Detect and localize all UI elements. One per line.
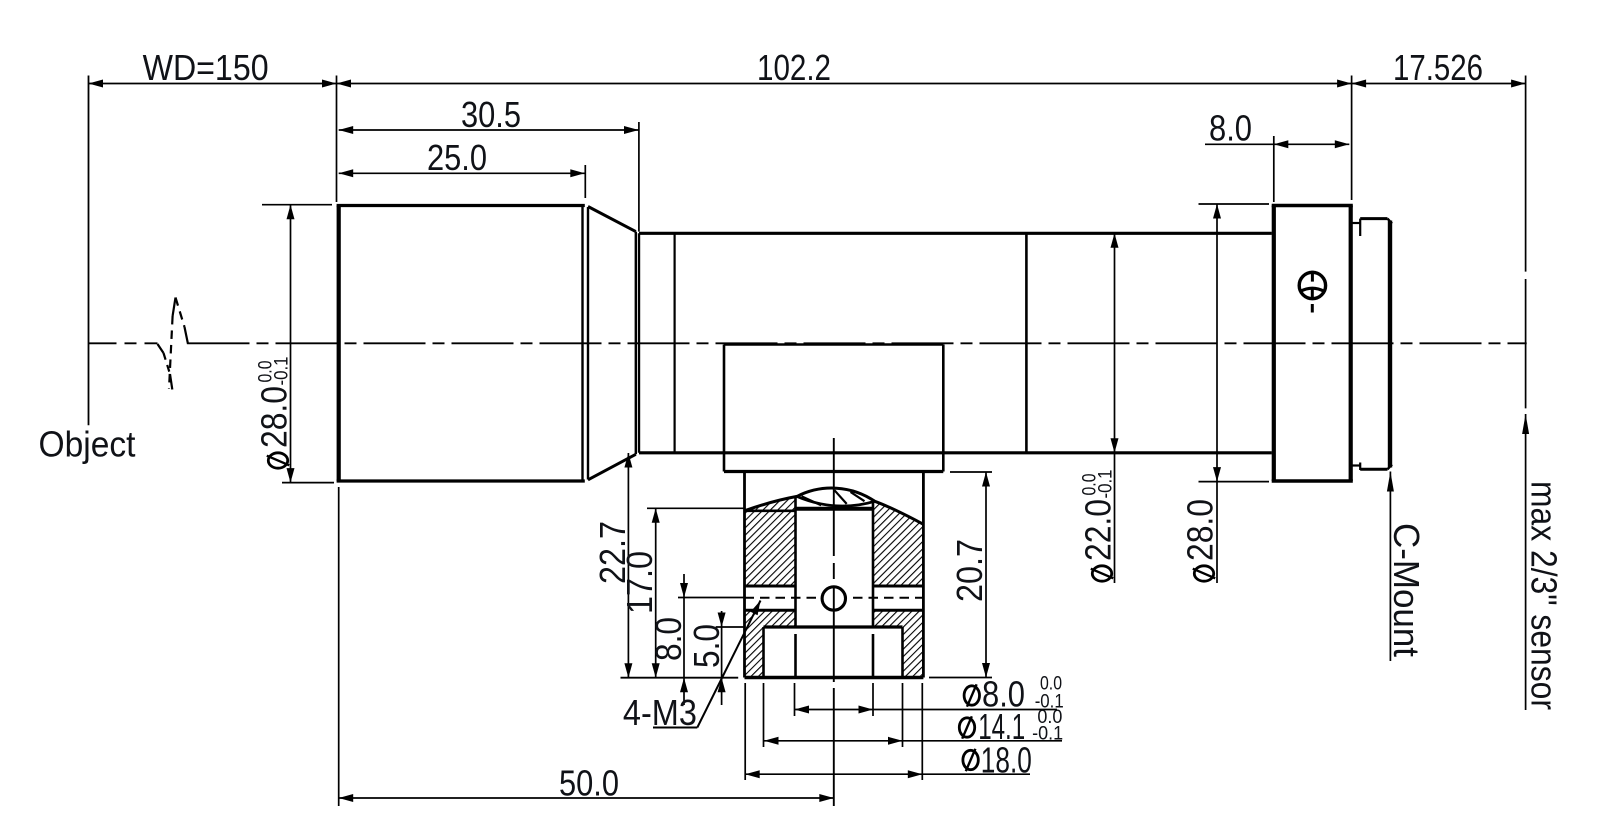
svg-text:C-Mount: C-Mount <box>1386 523 1427 657</box>
tube joint line rear <box>1025 233 1028 452</box>
4-M3 leader line <box>697 601 760 728</box>
ext line barrel dia bottom <box>282 482 334 484</box>
hatch region left lower <box>745 610 796 677</box>
svg-text:17.526: 17.526 <box>1393 47 1483 88</box>
break symbol zigzag on axis <box>158 298 189 390</box>
hatch region right upper <box>873 501 923 586</box>
ext line hole axis <box>678 597 744 599</box>
dim 50.0 line <box>339 797 834 799</box>
svg-text:30.5: 30.5 <box>461 94 521 135</box>
dim 8.0 arrows <box>1274 140 1289 148</box>
ext line recess top <box>716 626 744 628</box>
svg-text:WD=150: WD=150 <box>143 47 269 88</box>
extension line at lens front <box>336 76 338 203</box>
svg-text:17.0: 17.0 <box>619 551 660 614</box>
flange top edge <box>1272 204 1353 207</box>
dim 25.0 line <box>339 172 585 174</box>
dim dia28 barrel line <box>290 205 292 483</box>
dim 17.0 line <box>655 508 657 677</box>
dim 30.5 line <box>339 129 639 131</box>
ext line barrel front lower <box>338 487 340 806</box>
svg-text:25.0: 25.0 <box>427 137 487 178</box>
rear cyl left edge top <box>1359 219 1361 236</box>
slot bottom line left <box>745 609 796 612</box>
dim 50.0 arrows <box>339 794 354 802</box>
dim WD=150 line <box>89 83 337 85</box>
flange right edge <box>1349 206 1353 482</box>
svg-text:8.0: 8.0 <box>648 617 689 661</box>
label dia18 <box>963 750 978 769</box>
dim 20.7 line <box>985 472 987 678</box>
ext dia8 left <box>794 683 796 716</box>
object plane line <box>88 76 90 426</box>
bore right edge in recess <box>872 634 875 678</box>
ext line dome base <box>647 507 744 509</box>
dim 5.0 arrows <box>718 613 726 628</box>
4-M3 leader shelf <box>653 727 697 729</box>
slot top line left <box>745 585 796 588</box>
extension line barrel rear <box>584 165 586 198</box>
svg-text:Object: Object <box>39 423 136 464</box>
barrel bottom edge <box>337 479 585 482</box>
dim 17.526 arrows <box>1352 80 1367 88</box>
dim dia22 arrows <box>1111 233 1119 248</box>
svg-text:-0.1: -0.1 <box>1032 724 1063 745</box>
slot bottom line right <box>873 609 923 612</box>
dim dia28 flange line <box>1216 204 1218 583</box>
svg-text:-0.1: -0.1 <box>1096 470 1117 499</box>
dim 17.0 arrows <box>652 508 660 523</box>
ext dia14 left <box>763 683 765 747</box>
sensor plane line mid <box>1525 279 1527 408</box>
label dia22 <box>1078 470 1119 582</box>
shoulder line left <box>745 509 796 512</box>
sensor plane line upper <box>1525 76 1527 272</box>
ext line barrel dia top <box>262 204 332 206</box>
dim dia14 line <box>764 740 1062 742</box>
ext dia18 right <box>921 683 923 780</box>
ext line flange dia bottom <box>1199 481 1270 483</box>
bore top edge <box>796 507 872 511</box>
dim 8.0 line <box>1205 143 1349 145</box>
block right edge <box>942 345 945 472</box>
extension line at C-mount face <box>1351 76 1353 201</box>
dim dia8 arrows <box>795 706 810 714</box>
svg-text:8.0: 8.0 <box>1209 108 1252 149</box>
rear cyl left edge bottom <box>1359 463 1361 471</box>
ext dia14 right <box>902 683 904 747</box>
dim 17.526 line <box>1352 83 1526 85</box>
recess right wall <box>901 627 904 678</box>
label 5.0 <box>686 624 727 668</box>
section vertical centerline dash3 <box>833 688 835 806</box>
taper top edge <box>588 207 636 232</box>
barrel rear rim inner <box>587 207 589 480</box>
dim WD=150 arrows <box>89 80 104 88</box>
label 17.0 <box>619 551 660 614</box>
dim dia18 line <box>745 773 1030 775</box>
ext line flange dia top <box>1199 203 1270 205</box>
dim 22.7 arrows <box>624 453 632 468</box>
slot top line right <box>873 585 923 588</box>
label 8.0v <box>648 617 689 661</box>
dim 25.0 arrows <box>339 169 354 177</box>
svg-text:28.0: 28.0 <box>254 386 295 448</box>
block left edge <box>723 345 726 472</box>
svg-text:20.7: 20.7 <box>949 539 990 602</box>
bore right edge <box>872 503 875 628</box>
section vertical centerline dash2 <box>833 586 835 682</box>
ext dia8 right <box>872 683 874 716</box>
extension line taper end <box>638 122 640 232</box>
svg-text:5.0: 5.0 <box>686 624 727 668</box>
dim 8.0v arrows <box>680 583 688 598</box>
label C-Mount <box>1386 523 1427 657</box>
dim dia18 arrows <box>745 770 760 778</box>
bore left edge <box>794 498 797 628</box>
recess left wall <box>762 627 765 678</box>
block bottom edge <box>724 470 943 473</box>
section outer left edge <box>743 472 746 678</box>
label dia28 flange <box>1180 499 1221 581</box>
flange left edge <box>1272 206 1276 482</box>
dim 102.2 arrows <box>337 80 352 88</box>
block top edge <box>724 343 943 345</box>
barrel front face <box>337 206 341 482</box>
hatch region left upper <box>745 497 796 586</box>
svg-text:max 2/3" sensor: max 2/3" sensor <box>1524 481 1565 710</box>
extension line flange left <box>1273 136 1275 202</box>
ext line block bottom right <box>950 471 992 473</box>
rear cyl top edge <box>1360 217 1387 220</box>
svg-text:22.0: 22.0 <box>1078 499 1119 561</box>
tube top edge <box>639 232 1272 235</box>
hatch region right lower <box>873 610 923 677</box>
eye hatch tick 2 <box>834 490 846 504</box>
barrel top edge <box>337 204 585 207</box>
centerline main axis left of break <box>89 342 158 344</box>
eye hatch tick 1 <box>802 496 822 505</box>
taper bottom edge <box>588 454 636 480</box>
dim dia14 arrows <box>764 737 779 745</box>
dim 102.2 line <box>337 83 1352 85</box>
dim dia8 line <box>795 709 1058 711</box>
section vertical centerline dash1 <box>833 563 835 579</box>
taper end rim outer <box>635 232 637 455</box>
cross hole circle <box>822 587 845 610</box>
rear cyl bottom edge <box>1360 468 1387 471</box>
svg-text:50.0: 50.0 <box>559 763 619 804</box>
svg-text:102.2: 102.2 <box>757 47 831 88</box>
section vertical centerline solid <box>833 438 835 556</box>
dim 8.0v line <box>683 574 685 705</box>
tube joint line front <box>673 233 675 452</box>
section bottom edge <box>745 676 924 679</box>
label 20.7 <box>949 539 990 602</box>
rear cyl chamfer top <box>1388 219 1393 224</box>
barrel rear rim outer <box>581 206 583 482</box>
taper end rim inner <box>638 233 640 452</box>
centerline main axis <box>188 342 1527 344</box>
svg-text:18.0: 18.0 <box>981 740 1032 781</box>
rear cyl right edge <box>1388 221 1392 468</box>
bore left edge in recess <box>794 634 797 678</box>
dim 5.0 line <box>721 611 723 705</box>
label 22.7 <box>592 521 633 584</box>
dim dia28 flange arrows <box>1213 204 1221 219</box>
tube bottom edge <box>639 451 1272 454</box>
slot hidden dashed line <box>745 597 924 599</box>
svg-text:-0.1: -0.1 <box>272 357 293 386</box>
step cyl top edge <box>1351 222 1361 224</box>
section outer right edge <box>922 472 925 678</box>
set screw symbol <box>1299 272 1325 298</box>
svg-text:28.0: 28.0 <box>1180 499 1221 561</box>
ext line bottom reference <box>621 677 739 679</box>
dim dia28 barrel arrows <box>287 205 295 220</box>
ext dia18 left <box>744 683 746 780</box>
dome curve <box>745 488 924 524</box>
dim 20.7 arrows <box>982 472 990 487</box>
sensor leader arrow <box>1522 414 1529 434</box>
label dia8 <box>964 686 979 705</box>
recess top edge <box>764 625 903 628</box>
eye hatch tick 3 <box>851 492 865 501</box>
C-Mount leader <box>1389 472 1391 662</box>
dim 30.5 arrows <box>339 126 354 134</box>
label dia28 barrel <box>254 357 295 469</box>
rear cyl chamfer bottom <box>1388 465 1393 470</box>
ext line section bottom right <box>929 677 992 679</box>
step cyl bottom edge <box>1351 464 1361 466</box>
dim 22.7 line <box>627 453 629 678</box>
label max 2/3 sensor <box>1524 481 1565 710</box>
label dia14 <box>959 718 974 737</box>
flange bottom edge <box>1272 479 1353 483</box>
eye lower curve <box>797 497 875 507</box>
dim dia22 line <box>1114 233 1116 583</box>
